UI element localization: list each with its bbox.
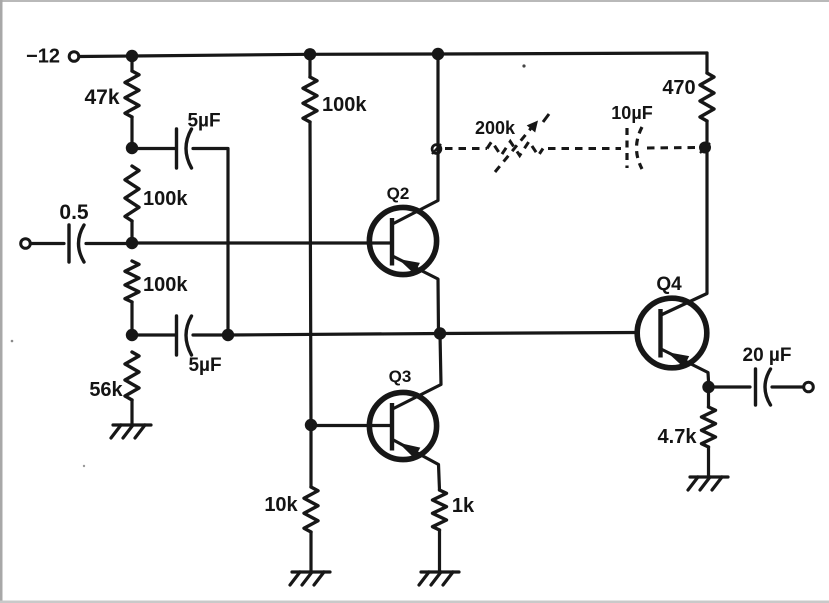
wire output bus node D to Q4 base [228,333,637,336]
label 470 [662,77,695,99]
ground 56k [111,425,151,438]
label 1k [452,495,475,517]
node tap right on 470/Q4 line [700,143,710,153]
wire top supply rail [79,53,707,57]
node tap left on Q2 collector line [432,144,441,154]
node D junction 5uF/feedback/output bus [222,329,234,341]
wire 100k middle down to node E [310,122,311,425]
svg-text:0.5: 0.5 [59,201,89,224]
label 100k lower-left [143,274,188,296]
wire 100k to node C [130,302,133,335]
svg-text:200k: 200k [475,118,516,138]
wire node E to Q3 base [311,424,392,427]
svg-text:10k: 10k [264,494,298,516]
transistor Q2 [369,207,438,333]
wire node B to Q2 base [132,241,392,244]
label -12 [26,46,60,68]
svg-text:20 µF: 20 µF [743,345,792,366]
node G junction Q4 emitter/4.7k/20uF [702,381,714,393]
wire Q3 collector riser [393,334,442,410]
resistor 47k [125,71,139,117]
label 10k [264,494,298,516]
ground 4.7k [688,477,728,490]
label 20uF [743,345,792,366]
svg-text:5µF: 5µF [187,111,220,132]
capacitor 5uF top plate right curved [186,129,192,168]
svg-text:47k: 47k [84,86,119,109]
wire C5 to output terminal [772,385,803,388]
capacitor 5uF top plate left [175,129,178,168]
wire node G to 4.7k [707,387,710,407]
resistor 100k lower-left [125,261,139,302]
svg-text:1k: 1k [452,495,475,517]
resistor 56k [125,352,139,400]
svg-text:Q2: Q2 [387,184,410,203]
terminal output [804,382,814,392]
label 4.7k [658,426,698,448]
node junction rail/Q2 collector [432,48,444,60]
svg-text:Q4: Q4 [656,274,682,295]
wire 10k to ground [309,532,312,571]
resistor 100k middle [303,77,317,122]
label 5uF top [187,111,220,132]
wire dashed 200k link right [647,146,697,150]
wire rail to 100k middle [308,54,311,77]
capacitor 10uF dashed plate right curved [637,127,643,169]
node B junction input/100k/100k [126,237,138,249]
wire 470 drop from rail [705,53,708,73]
capacitor 20uF plate left [754,369,757,405]
wire 470 to Q4 collector [661,121,707,315]
wire C2 to node B [86,242,132,245]
node E junction 100k/10k/Q3 base [305,419,317,431]
wire rail to 47k [130,56,133,71]
label 5uF bottom [188,355,221,376]
wire input to C2 [31,242,65,245]
wire node A to capacitor C1 [132,147,176,150]
wire capacitor to feedback drop [193,149,228,336]
svg-text:100k: 100k [143,274,188,296]
wire 47k to node A [130,117,133,148]
wire 4.7k to ground [707,447,710,476]
node A junction 47k/100k/5uF [126,142,138,154]
svg-text:4.7k: 4.7k [658,426,698,448]
svg-text:Q3: Q3 [389,367,412,386]
wire node C to capacitor C3 [132,333,176,336]
label Q2 [387,184,410,203]
wire dashed 200k link middle [548,147,621,150]
wire node E to 10k [309,425,312,487]
resistor 10k [304,487,318,532]
svg-text:−12: −12 [26,46,60,68]
wire Q2 collector riser [393,54,439,224]
resistor 470 [700,73,714,121]
resistor 4.7k [702,407,716,447]
wire node G to C5 [709,385,751,388]
capacitor 0.5 plate left [67,225,70,262]
label 0.5 [59,201,89,224]
arrow rheostat wiper [495,114,549,172]
label 100k middle [322,94,367,116]
capacitor 5uF bottom plate right curved [186,316,192,355]
rheostat 200k dashed [487,142,543,156]
node C junction 100k/56k/5uF [126,329,138,341]
capacitor 10uF dashed plate left [625,128,628,168]
svg-text:470: 470 [662,77,695,99]
wire dashed 200k link left [445,147,487,150]
node F junction Q2 emitter/Q3 collector/output bus [434,327,446,339]
resistor 100k upper-left [125,166,139,221]
label Q3 [389,367,412,386]
ground 1k [419,572,459,585]
capacitor 0.5 plate right curved [79,225,85,262]
wire C3 to node D [193,333,228,336]
label 200k [475,118,516,138]
label 56k [89,379,123,401]
label Q4 [656,274,682,295]
wire 100k to node B [130,221,133,243]
svg-text:100k: 100k [322,94,367,116]
terminal input [21,239,31,249]
svg-text:100k: 100k [143,188,188,210]
terminal -12 supply [69,52,79,62]
label 10uF [611,103,652,123]
capacitor 20uF plate right curved [765,369,771,405]
node junction rail/100k middle [304,48,316,60]
svg-text:5µF: 5µF [188,355,221,376]
wire 1k to ground [438,530,441,571]
transistor Q4 [637,298,708,381]
transistor Q3 [369,392,439,490]
label 47k [84,86,119,109]
wire 56k to ground [130,400,133,424]
capacitor 5uF bottom plate left [175,316,178,355]
node junction rail/47k [126,50,138,62]
resistor 1k [433,490,447,530]
ground 10k [290,572,330,585]
svg-text:56k: 56k [89,379,123,401]
label 100k upper-left [143,188,188,210]
svg-text:10µF: 10µF [611,103,652,123]
